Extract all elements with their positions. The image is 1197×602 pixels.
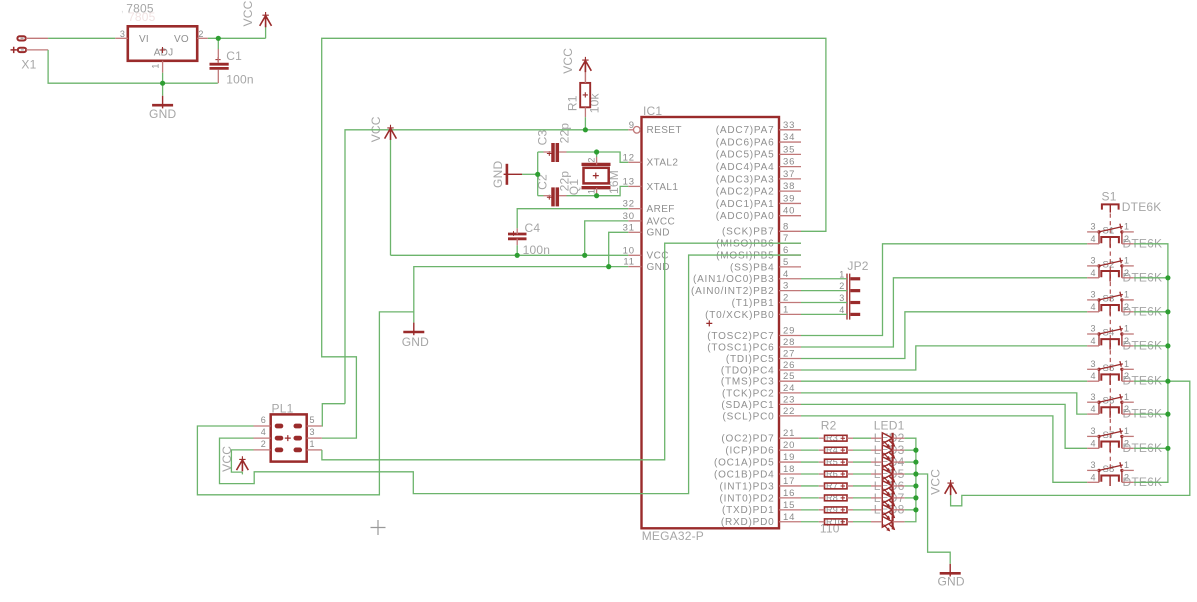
crystal pin stubs	[596, 157, 598, 165]
ground GND below IC	[413, 323, 415, 336]
LED column LED1-LED8 symbols	[882, 433, 892, 444]
svg-text:Q1: Q1	[567, 179, 581, 196]
IC1 MEGA32-P body	[642, 117, 780, 528]
switch S1 symbol	[1097, 224, 1123, 248]
svg-text:VCC: VCC	[561, 48, 575, 74]
svg-text:AVCC: AVCC	[647, 216, 676, 227]
svg-text:(SDA)PC1: (SDA)PC1	[721, 400, 774, 411]
wire 7805 VO to VCC corner	[208, 37, 266, 39]
svg-text:(TCK)PC2: (TCK)PC2	[722, 388, 775, 399]
svg-text:2: 2	[1124, 472, 1129, 482]
LED cathode bus	[905, 438, 916, 522]
svg-text:1: 1	[310, 439, 315, 449]
junction R1 / RESET rail	[583, 127, 588, 132]
wire VCC to R1 net / RESET pullup rail	[345, 130, 628, 404]
svg-text:(TDI)PC5: (TDI)PC5	[726, 354, 775, 365]
svg-text:3: 3	[1090, 256, 1095, 266]
wire AVCC riser	[585, 221, 629, 255]
svg-text:2: 2	[1124, 336, 1129, 346]
svg-text:(ADC3)PA3: (ADC3)PA3	[716, 174, 775, 185]
PL1 pads	[275, 424, 282, 427]
svg-text:,: ,	[121, 4, 124, 15]
svg-text:RESET: RESET	[647, 125, 682, 136]
svg-text:GND: GND	[402, 335, 429, 349]
wire C1 top connection	[217, 38, 219, 49]
wire X1.1 to 7805 VI	[48, 37, 115, 39]
switch S8 symbol	[1097, 462, 1123, 486]
svg-text:(ADC1)PA1: (ADC1)PA1	[716, 199, 775, 210]
switch S5 symbol	[1097, 361, 1123, 385]
svg-text:DTE6K: DTE6K	[1122, 200, 1162, 214]
svg-text:10: 10	[623, 245, 635, 256]
svg-text:VCC: VCC	[235, 0, 261, 3]
PL1 stubs	[254, 425, 271, 427]
svg-text:(ADC6)PA6: (ADC6)PA6	[716, 137, 775, 148]
svg-text:1: 1	[587, 189, 597, 194]
wire PC6 to switch S2	[801, 278, 1087, 347]
svg-text:2: 2	[587, 157, 597, 162]
svg-text:VI: VI	[139, 34, 149, 45]
svg-text:(AIN1/OC0)PB3: (AIN1/OC0)PB3	[693, 274, 775, 285]
svg-text:VCC: VCC	[647, 251, 669, 262]
svg-text:R1: R1	[566, 95, 580, 111]
svg-text:4: 4	[1090, 336, 1095, 346]
7805 pin stubs	[115, 37, 128, 39]
IC1 right stubs	[779, 129, 801, 131]
svg-text:3: 3	[1090, 324, 1095, 334]
wire PC3 to switch S5	[801, 380, 1087, 382]
svg-text:(MISO)PB6: (MISO)PB6	[716, 239, 774, 250]
svg-text:JP2: JP2	[847, 259, 868, 273]
svg-text:(ADC7)PA7: (ADC7)PA7	[716, 125, 775, 136]
capacitor C1 plates	[210, 63, 229, 66]
wire VCC rail to IC pin10	[391, 254, 629, 256]
svg-text:(TMS)PC3: (TMS)PC3	[721, 377, 775, 388]
capacitor C2 plates	[551, 187, 555, 206]
switch S1 top bracket	[1102, 204, 1119, 209]
svg-text:(INT0)PD2: (INT0)PD2	[720, 493, 775, 504]
svg-text:C3: C3	[536, 130, 550, 146]
svg-text:ADJ: ADJ	[154, 48, 174, 59]
wire SCK big loop: PB7 to PL1 pin3	[322, 38, 826, 438]
power VCC top-left	[260, 15, 272, 28]
resistor network R2: R3-R10 bodies	[825, 435, 848, 441]
svg-text:2: 2	[1124, 302, 1129, 312]
svg-text:XTAL1: XTAL1	[647, 182, 679, 193]
capacitor C4 plates	[508, 233, 527, 236]
wire crystal top node to XTAL2	[567, 152, 629, 162]
connector X1 pad 2	[18, 48, 26, 52]
svg-text:22p: 22p	[558, 123, 572, 144]
wire ADJ pin to rail	[162, 73, 164, 84]
junction regulator ground rail	[160, 81, 165, 86]
svg-text:3: 3	[1090, 392, 1095, 402]
svg-text:(INT1)PD3: (INT1)PD3	[720, 481, 775, 492]
svg-text:(ADC4)PA4: (ADC4)PA4	[716, 162, 775, 173]
svg-text:3: 3	[839, 293, 844, 303]
svg-text:4: 4	[1090, 302, 1095, 312]
wire X1.2 down to ground rail	[48, 50, 218, 83]
svg-text:GND: GND	[149, 107, 176, 121]
svg-text:2: 2	[839, 281, 844, 291]
junction C4 / VCC rail	[515, 253, 520, 258]
svg-text:1: 1	[1124, 392, 1129, 402]
svg-text:4: 4	[1090, 234, 1095, 244]
wire crystal pins to nodes	[596, 152, 598, 157]
svg-text:6: 6	[783, 245, 789, 256]
wire PC0 to switch S8	[801, 416, 1087, 482]
svg-text:2: 2	[1124, 268, 1129, 278]
wires PD pins to resistors	[801, 437, 819, 439]
wires PB3-PB0 to JP2	[801, 278, 847, 280]
R2 resistor pin stubs	[819, 437, 825, 439]
junction crystal top	[594, 149, 599, 154]
C1 pin stubs	[217, 49, 219, 63]
X1 plus mark	[11, 47, 17, 53]
LED pin stubs	[871, 437, 882, 439]
IC1 left stubs	[628, 129, 633, 131]
junction GND31 riser	[606, 264, 611, 269]
C3 C2 pin stubs	[544, 151, 552, 153]
svg-text:4: 4	[839, 305, 844, 315]
ground GND regulator	[162, 96, 164, 109]
svg-text:2: 2	[1124, 234, 1129, 244]
wire C4 bottom to VCC rail	[516, 245, 518, 255]
wire crystal bottom node to XTAL1	[567, 186, 629, 195]
wire rail to GND symbol	[162, 83, 164, 96]
power VCC above R1	[580, 60, 592, 73]
resistor R1 body	[580, 83, 590, 107]
svg-text:1: 1	[1124, 359, 1129, 369]
wire switch bus to VCC rail	[951, 381, 1190, 506]
svg-text:1: 1	[1124, 460, 1129, 470]
svg-text:(ICP)PD6: (ICP)PD6	[725, 446, 774, 457]
svg-text:2: 2	[198, 29, 203, 39]
IC1 origin cross	[706, 320, 712, 326]
svg-text:1: 1	[1124, 426, 1129, 436]
switch S2 symbol	[1097, 258, 1123, 282]
svg-text:(OC1B)PD4: (OC1B)PD4	[714, 469, 775, 480]
connector X1 pad 1	[17, 36, 25, 40]
svg-text:GND: GND	[647, 228, 670, 239]
wire PC1 to switch S7	[801, 404, 1087, 448]
svg-text:XTAL2: XTAL2	[647, 158, 679, 169]
svg-text:2: 2	[261, 439, 266, 449]
wire VCC riser top-left	[265, 24, 267, 39]
switch S4 symbol	[1097, 326, 1123, 350]
wire GND pin31 riser	[609, 232, 629, 266]
switch mechanical dashed line	[1109, 214, 1111, 470]
capacitor C3 plates	[551, 143, 555, 162]
svg-text:4: 4	[1090, 438, 1095, 448]
svg-text:4: 4	[1090, 404, 1095, 414]
svg-text:S1: S1	[1102, 190, 1117, 204]
svg-text:3: 3	[310, 427, 315, 437]
wire PL1 pin2 to VCC	[231, 450, 253, 472]
svg-text:GND: GND	[647, 262, 670, 273]
svg-text:1: 1	[1124, 256, 1129, 266]
regulator origin cross	[160, 47, 166, 53]
wire left node to crystal GND	[522, 173, 538, 175]
switch pin stubs	[1087, 231, 1099, 233]
svg-text:4: 4	[1090, 268, 1095, 278]
junction VO / C1	[216, 36, 221, 41]
crystal Q1 body	[584, 168, 609, 184]
wire R1 bottom to reset rail	[584, 117, 586, 130]
svg-text:GND: GND	[491, 161, 505, 188]
svg-text:1: 1	[151, 63, 161, 68]
wire MOSI: PB5 across IC to PL1 pin4	[220, 255, 802, 494]
svg-text:(AIN0/INT2)PB2: (AIN0/INT2)PB2	[691, 286, 774, 297]
svg-text:4: 4	[261, 427, 266, 437]
wire PC2 to switch S6	[801, 393, 1087, 414]
switch S3 symbol	[1097, 292, 1123, 316]
svg-text:(OC1A)PD5: (OC1A)PD5	[714, 457, 775, 468]
svg-text:C4: C4	[525, 221, 541, 235]
power VCC near LEDs	[945, 483, 957, 496]
power VCC mid-left on reset rail	[385, 127, 397, 139]
svg-text:(ADC2)PA2: (ADC2)PA2	[716, 187, 775, 198]
svg-text:1: 1	[1124, 290, 1129, 300]
svg-text:C1: C1	[226, 49, 242, 63]
crystal Q1 plates	[582, 163, 611, 166]
wire RESET to PL1 pin5	[322, 404, 345, 426]
switch S7 symbol	[1097, 428, 1123, 452]
wire PC4 to switch S4	[801, 346, 1087, 370]
svg-text:1: 1	[1124, 222, 1129, 232]
svg-text:4: 4	[1090, 371, 1095, 381]
svg-text:3: 3	[120, 29, 125, 39]
svg-text:6: 6	[261, 415, 266, 425]
wire VCC arrow near PL1 stem	[241, 472, 243, 474]
svg-text:VCC: VCC	[929, 469, 943, 495]
ground GND bottom right	[949, 564, 951, 577]
junction crystal bottom	[594, 193, 599, 198]
power VCC near PL1	[237, 459, 249, 472]
svg-text:3: 3	[1090, 426, 1095, 436]
ground GND crystal (rotated left)	[504, 164, 522, 185]
svg-text:(OC2)PD7: (OC2)PD7	[721, 434, 774, 445]
wire GND branch to PL1 pin6 net	[197, 312, 413, 495]
svg-text:(SCL)PC0: (SCL)PC0	[723, 411, 775, 422]
svg-text:(TXD)PD1: (TXD)PD1	[722, 505, 775, 516]
JP2 pads	[850, 277, 860, 280]
svg-text:(T1)PB1: (T1)PB1	[732, 298, 775, 309]
junction C2 C3 GND tap	[535, 172, 540, 177]
svg-text:VO: VO	[174, 34, 189, 45]
svg-text:(SS)PB4: (SS)PB4	[730, 262, 775, 273]
svg-text:R2: R2	[821, 419, 837, 433]
switch S6 symbol	[1097, 394, 1123, 418]
connector JP2 body	[846, 274, 848, 320]
wire AREF to C4	[517, 209, 628, 229]
C4 pin stubs	[516, 228, 518, 234]
X1 pin wires	[26, 37, 48, 39]
junction AVCC riser	[582, 253, 587, 258]
svg-text:3: 3	[1090, 290, 1095, 300]
svg-text:(TOSC2)PC7: (TOSC2)PC7	[707, 331, 774, 342]
svg-text:1: 1	[1124, 324, 1129, 334]
svg-text:7805: 7805	[128, 10, 156, 24]
regulator IC2 7805 body	[128, 26, 197, 61]
svg-text:2: 2	[1124, 404, 1129, 414]
svg-text:X1: X1	[21, 58, 36, 72]
sheet crosshair marker	[371, 520, 386, 535]
switch pin2 bus	[1134, 244, 1168, 482]
wire GND pin11 rail	[414, 267, 629, 323]
junction LED bus dots	[913, 448, 918, 453]
wire LED bus to GND bottom right	[916, 474, 950, 564]
svg-text:(T0/XCK)PB0: (T0/XCK)PB0	[705, 310, 774, 321]
svg-text:(ADC0)PA0: (ADC0)PA0	[716, 211, 775, 222]
wire PC7 to switch S1	[801, 244, 1087, 336]
wire VCC arrow mid-left riser	[390, 139, 392, 255]
svg-text:4: 4	[1090, 472, 1095, 482]
svg-text:(ADC5)PA5: (ADC5)PA5	[716, 150, 775, 161]
svg-text:100n: 100n	[226, 73, 254, 87]
svg-text:AREF: AREF	[647, 204, 675, 215]
R1 pin stubs	[584, 63, 586, 83]
connector PL1 body	[271, 414, 307, 461]
svg-text:2: 2	[1124, 438, 1129, 448]
svg-text:(TDO)PC4: (TDO)PC4	[721, 365, 775, 376]
svg-text:(TOSC1)PC6: (TOSC1)PC6	[707, 342, 774, 353]
svg-text:3: 3	[1090, 460, 1095, 470]
svg-text:GND: GND	[937, 574, 964, 588]
svg-text:(SCK)PB7: (SCK)PB7	[722, 227, 775, 238]
svg-text:3: 3	[1090, 359, 1095, 369]
svg-text:VCC: VCC	[241, 0, 255, 26]
svg-text:1: 1	[839, 269, 844, 279]
svg-text:2: 2	[1124, 371, 1129, 381]
svg-text:5: 5	[310, 415, 315, 425]
svg-text:(RXD)PD0: (RXD)PD0	[721, 517, 775, 528]
wire PC5 to switch S3	[801, 312, 1087, 359]
svg-text:(MOSI)PB5: (MOSI)PB5	[716, 250, 774, 261]
junction switch bus dots	[1165, 275, 1170, 280]
svg-text:3: 3	[1090, 222, 1095, 232]
wire MISO: PB6 across IC to PL1 pin1	[322, 243, 801, 460]
wire C3-C2 left side	[537, 152, 539, 196]
svg-text:MEGA32-P: MEGA32-P	[642, 529, 704, 543]
